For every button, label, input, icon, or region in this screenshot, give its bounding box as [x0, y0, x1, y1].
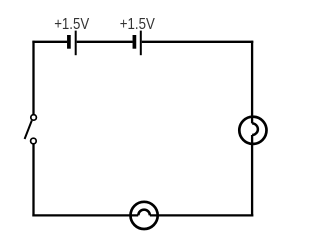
lamp L1 filament bump (semicircle bulging right) — [252, 123, 258, 135]
battery B1 positive plate (long thin line) — [75, 31, 77, 56]
lamp L2 (bottom) outer circle — [131, 202, 158, 229]
wire: left vertical segment (top-left corner down to switch) — [32, 41, 34, 115]
svg-text:+1.5V: +1.5V — [54, 16, 90, 33]
switch S1 upper contact (open circle) — [31, 115, 37, 121]
svg-text:+1.5V: +1.5V — [120, 16, 156, 33]
lamp L1 (right side) outer circle — [239, 117, 266, 144]
wire: left vertical segment (switch down to bottom-left corner) — [32, 144, 34, 216]
wire: top middle segment (battery B1 to battery B2) — [77, 41, 133, 43]
wire: bottom horizontal segment (lamp L2 to bottom-right corner) — [150, 214, 253, 216]
wire: bottom horizontal segment (bottom-left corner to lamp L2) — [32, 214, 138, 216]
switch S1 lower contact (open circle) — [31, 138, 37, 144]
wire: top-left horizontal segment (to battery B1) — [32, 41, 67, 43]
wire: top-right horizontal segment (battery B2 to top-right corner) — [142, 41, 254, 43]
wire: right vertical segment (lamp L1 down to bottom-right corner) — [251, 135, 253, 217]
battery B2 positive plate (long thin line) — [140, 31, 142, 56]
lamp L2 filament bump (semicircle bulging up) — [138, 210, 150, 216]
wire: right vertical segment (top-right corner down to lamp L1) — [251, 41, 253, 124]
battery B2 negative plate (short thick bar) — [133, 35, 137, 49]
switch S1 lever (open, tilted left) — [25, 121, 32, 140]
battery B1 negative plate (short thick bar) — [67, 35, 71, 49]
